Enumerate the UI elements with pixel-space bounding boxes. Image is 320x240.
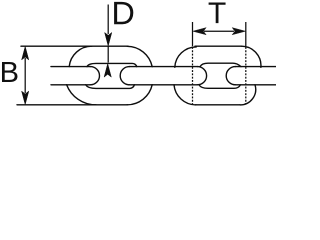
T label xyxy=(209,2,226,23)
bar-2 bottom line xyxy=(129,84,197,86)
left link upper-right end arc xyxy=(127,46,152,66)
T arrowhead right xyxy=(232,28,246,35)
bar-3 bottom line xyxy=(235,84,276,86)
bar-3 top line xyxy=(235,66,276,68)
bar-1 top line xyxy=(51,66,90,68)
D arrowhead down to link top xyxy=(105,33,112,47)
bar-1 bottom line xyxy=(51,84,90,86)
T arrow shaft xyxy=(204,30,234,32)
left link slot top edge xyxy=(87,63,137,66)
B arrowhead down xyxy=(22,91,29,105)
B arrow line xyxy=(24,58,26,93)
B label xyxy=(2,62,17,82)
wire top line (left link top tangent + B extension) xyxy=(21,45,128,47)
D arrow shaft above xyxy=(107,5,109,35)
T right extension line xyxy=(245,22,247,46)
left link upper-left end arc xyxy=(69,46,92,66)
right link slot bottom edge xyxy=(199,85,241,89)
right link upper-left end arc xyxy=(175,47,197,67)
chain link dimension diagram xyxy=(0,0,276,108)
left link lower-left end arc xyxy=(67,85,96,105)
bar-1 right end cap xyxy=(90,67,99,85)
right link lower-right end arc xyxy=(240,85,256,105)
bar-2 left end cap xyxy=(120,67,129,85)
D dimension xyxy=(104,5,112,78)
left link slot bottom edge xyxy=(86,85,135,89)
D extension through wire xyxy=(107,46,109,62)
D label xyxy=(114,2,133,24)
right link top tangent line xyxy=(195,45,242,47)
bar-3 left end cap xyxy=(226,67,235,85)
wire bottom line (left link bottom tangent + B extension) xyxy=(17,104,128,106)
left link lower-right end arc xyxy=(127,85,152,105)
T dimension xyxy=(193,22,246,105)
T arrowhead left xyxy=(193,28,207,35)
B dimension xyxy=(22,46,29,104)
right link upper-right end arc xyxy=(242,46,261,67)
B arrowhead up xyxy=(22,46,29,60)
T left dotted line through link xyxy=(192,47,194,105)
T right dotted line through link xyxy=(245,47,247,105)
bar-2 right end cap xyxy=(197,67,206,85)
right link bottom tangent line xyxy=(196,104,241,106)
right link lower-left end arc xyxy=(174,85,196,105)
bar-2 top line xyxy=(129,66,197,68)
right link slot top edge xyxy=(200,63,241,66)
D arrowhead up to slot top xyxy=(104,64,111,78)
T left extension line xyxy=(192,22,194,46)
